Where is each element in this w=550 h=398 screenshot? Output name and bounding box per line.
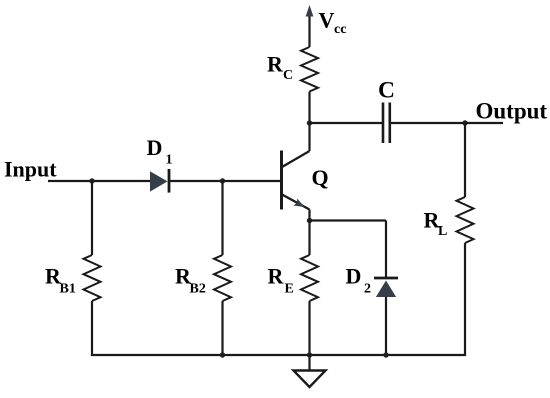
svg-text:1: 1	[166, 153, 173, 168]
wire: D2 bottom to rail	[385, 297, 387, 355]
resistor RB2	[214, 255, 231, 301]
svg-text:Q: Q	[312, 165, 329, 190]
node collector junction	[307, 120, 312, 125]
wire: capacitor to output node	[391, 122, 465, 124]
transistor Q1 emitter lead	[282, 195, 310, 210]
power Vcc arrowhead	[306, 5, 314, 17]
wire: Vcc stem	[308, 14, 310, 47]
ground	[308, 355, 310, 371]
wire: RL bottom to rail	[464, 243, 466, 355]
wire: emitter to emitter node	[308, 210, 310, 223]
wire: output node down to RL	[464, 123, 466, 197]
node input/RB1 junction	[89, 178, 94, 183]
wire: RB1 branch	[91, 181, 93, 255]
svg-text:cc: cc	[334, 22, 346, 37]
svg-text:L: L	[438, 224, 447, 239]
wire: RB2 branch	[221, 181, 223, 255]
resistor RC	[301, 47, 318, 92]
resistor RL	[457, 197, 474, 243]
svg-text:B1: B1	[60, 282, 76, 297]
node RB2 top junction	[220, 178, 225, 183]
transistor Q1 collector lead	[282, 151, 310, 167]
svg-text:D: D	[147, 135, 163, 160]
svg-text:R: R	[267, 52, 284, 77]
diode D1	[150, 171, 168, 191]
wire: collector node to capacitor	[310, 122, 383, 124]
wire: RB2 bottom to rail	[221, 301, 223, 355]
svg-text:2: 2	[364, 282, 371, 297]
wire: RE bottom to rail	[308, 301, 310, 355]
svg-text:Output: Output	[476, 99, 548, 124]
svg-text:Input: Input	[4, 157, 57, 182]
node output junction	[462, 120, 467, 125]
wire: RE branch	[308, 221, 310, 256]
svg-text:B2: B2	[190, 282, 206, 297]
svg-text:V: V	[319, 8, 335, 33]
wire: emitter node to D2 branch	[310, 219, 387, 221]
resistor RB1	[84, 255, 101, 301]
transistor Q1 emitter arrow	[293, 199, 304, 208]
wire: D2 branch down	[385, 221, 387, 279]
wire: bottom rail	[92, 354, 465, 355]
svg-text:C: C	[283, 68, 293, 83]
svg-text:D: D	[346, 264, 362, 289]
svg-text:R: R	[268, 264, 285, 289]
wire: RB1 bottom to rail	[91, 301, 93, 355]
capacitor C	[382, 103, 385, 144]
wire: output stub	[465, 122, 503, 124]
transistor Q1 base bar	[280, 151, 283, 210]
node RB2 bottom junction	[220, 352, 225, 357]
svg-text:E: E	[285, 282, 294, 297]
wire: D1 to base	[170, 180, 280, 182]
node D2 bottom junction	[383, 352, 388, 357]
node ground junction	[307, 352, 312, 357]
wire: input lead	[48, 180, 151, 182]
node emitter junction	[307, 218, 312, 223]
wire: RC bottom to collector node	[308, 92, 310, 152]
resistor RE	[301, 255, 318, 301]
diode D2	[374, 277, 398, 280]
svg-text:C: C	[378, 78, 395, 104]
